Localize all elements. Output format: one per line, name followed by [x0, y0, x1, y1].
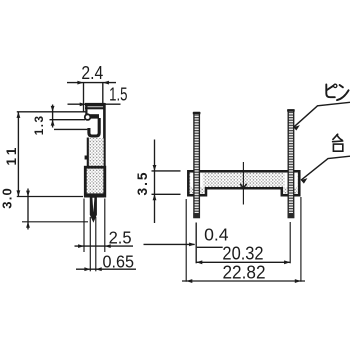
pin right white backing	[285, 173, 297, 187]
dim 3.5 line	[154, 140, 156, 224]
base (front view)	[188, 171, 299, 195]
label base (台) leader	[301, 156, 350, 180]
pin left (front view)	[194, 112, 200, 217]
body left edge	[87, 138, 89, 168]
dim 3.5 ext bottom	[152, 193, 181, 195]
svg-text:3.5: 3.5	[135, 170, 150, 195]
pin right (front view)	[288, 110, 294, 218]
dim 20.32 line	[196, 261, 290, 263]
pin ext line left	[89, 217, 91, 271]
svg-text:2.5: 2.5	[109, 228, 132, 247]
dim 20.32 ext right	[289, 222, 291, 263]
dim 2.5 ext right	[104, 199, 106, 253]
dim 22.82 ext right	[300, 197, 302, 282]
ext line box bottom (y196.5)	[17, 196, 83, 198]
dim 2.4 ext line right	[102, 83, 104, 104]
hook top	[85, 103, 105, 107]
ext line hook lower (y119.7)	[50, 119, 86, 121]
dim 0.4 underline	[197, 246, 223, 248]
svg-text:11: 11	[4, 144, 19, 165]
dim 1.5 line	[68, 103, 121, 105]
label pin (ピン) leader	[294, 102, 350, 127]
ext line pin tip (y221.8)	[22, 221, 88, 223]
dim 0.4 line	[144, 243, 195, 245]
dim 2.4 line	[67, 82, 116, 84]
pin (side view)	[90, 197, 97, 222]
label pin (ピン) glyphs	[326, 84, 348, 100]
ext line J tip (y129.4)	[54, 128, 87, 130]
dim 22.82 line	[182, 280, 305, 282]
body right edge	[103, 103, 106, 167]
dim 0.65 line	[76, 268, 136, 270]
ext line top (y111.8)	[17, 111, 86, 113]
hook left edge	[85, 103, 87, 115]
dim 20.32 ext left	[195, 223, 197, 264]
body fill	[88, 138, 104, 166]
base box (side view)	[85, 167, 105, 196]
svg-text:1.3: 1.3	[33, 115, 46, 136]
svg-text:20.32: 20.32	[222, 243, 263, 264]
dim 22.82 ext left	[185, 199, 187, 282]
svg-text:2.4: 2.4	[81, 62, 103, 84]
dim 2.5 ext left	[83, 199, 85, 253]
dim 2.5 line	[75, 245, 134, 247]
dim 3.0 line	[27, 189, 29, 230]
dim 1.3 line	[52, 105, 54, 128]
hook lip	[90, 114, 99, 118]
dim 2.4 ext line left	[83, 83, 85, 112]
body nub	[85, 156, 88, 160]
svg-text:3.0: 3.0	[0, 187, 15, 209]
hook circle	[85, 114, 91, 120]
label base (台) glyph	[333, 134, 343, 151]
svg-text:0.4: 0.4	[204, 224, 229, 244]
base center line	[242, 162, 244, 205]
dim 3.5 ext top	[152, 170, 181, 172]
pin ext line right	[95, 217, 97, 271]
svg-text:22.82: 22.82	[222, 262, 265, 283]
pin left white backing	[190, 173, 202, 187]
hook J spring	[89, 118, 99, 136]
svg-text:1.5: 1.5	[109, 84, 127, 105]
dim 11 line	[17, 112, 19, 197]
base center notch	[240, 184, 246, 188]
